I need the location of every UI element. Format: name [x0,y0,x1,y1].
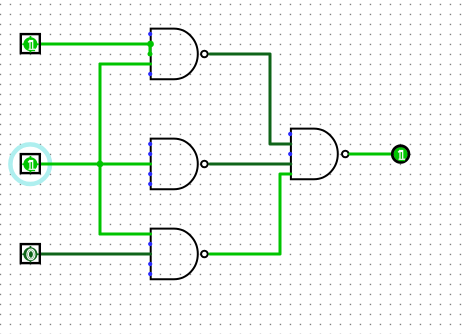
input pin C (value 0) [21,244,40,263]
U4 unconnected port (290,134) [288,132,292,136]
U3 unconnected port (150,274) [148,272,152,276]
wire pin A to gate U1 input [41,43,151,46]
wire U4 output to pin Y [350,153,391,156]
U2 unconnected port (150,154) [148,152,152,156]
wire U2 output to U4 input [210,163,291,166]
wire branch to U1 lower input [100,63,151,66]
U2 unconnected port (150,144) [148,142,152,146]
wire U3 output to U4 input [210,174,291,254]
U2 unconnected port (150,174) [148,172,152,176]
wire along U1 edge (150,44)-(150,54) [149,44,152,54]
wire vertical trunk x=100 [99,64,102,234]
wire pin B to gate U2 input [41,163,151,166]
U4 unconnected port (290,154) [288,152,292,156]
NAND gate U2 [151,139,208,190]
wire end cap (150,54) [148,52,153,57]
output pin Y (value 1) [392,146,409,163]
NAND gate U4 [291,129,349,180]
wire U1 output to U4 input [210,54,291,144]
NAND gate U3 [151,229,208,280]
U1 unconnected port (150,34) [148,32,152,36]
U2 unconnected port (150,184) [148,182,152,186]
junction (100,164) [97,161,104,168]
U3 unconnected port (150,264) [148,262,152,266]
input pin B (value 1) [21,154,40,173]
selection halo around input pin B [10,144,50,184]
wire pin C to gate U3 input [41,253,151,256]
junction (150,44) [147,41,154,48]
U3 unconnected port (150,244) [148,242,152,246]
NAND gate U1 [151,29,208,80]
input pin A (value 1) [21,34,40,53]
U1 unconnected port (150,74) [148,72,152,76]
wire branch to U3 top input [100,233,151,236]
